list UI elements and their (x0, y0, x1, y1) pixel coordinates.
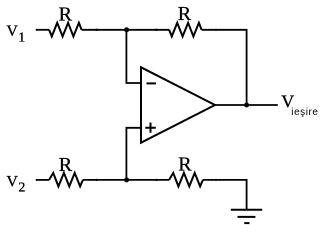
op-amp inverting pin minus sign (147, 82, 157, 84)
junction dot: output node (244, 103, 249, 108)
svg-text:R: R (178, 154, 192, 176)
wire: node down to op-amp inverting input (126, 30, 141, 83)
ground symbol (231, 210, 262, 223)
resistor R (top left, input R from V1) (49, 23, 82, 37)
node Viesire output label (281, 92, 318, 119)
svg-text:R: R (178, 3, 192, 25)
svg-text:R: R (59, 3, 73, 25)
svg-text:V: V (6, 173, 18, 190)
wire endpoint tick (bottom, x96.6) (95, 179, 97, 181)
svg-text:ieşire: ieşire (291, 107, 318, 118)
wire: op-amp output (215, 104, 278, 106)
node V1 label (6, 23, 25, 45)
wire: feedback resistor to output node (202, 30, 247, 105)
junction dot: inverting input node (124, 27, 129, 32)
wire V1 lead (36, 29, 49, 31)
svg-text:V: V (6, 23, 18, 40)
junction dot: non-inverting input node (124, 177, 129, 182)
wire endpoint tick (bottom, x156.5) (155, 179, 157, 181)
op-amp non-inverting pin plus sign (145, 123, 156, 133)
op-amp U1 triangle (141, 67, 215, 142)
wire: resistor to ground (203, 180, 247, 210)
wire endpoint tick (top, x156.4) (155, 29, 157, 31)
resistor R (bottom right, R to ground) (169, 173, 203, 187)
svg-text:1: 1 (18, 30, 25, 45)
resistor R (top right, feedback R) (169, 23, 202, 37)
svg-text:R: R (59, 154, 73, 176)
wire top: resistor to inverting node (82, 29, 170, 31)
wire endpoint tick (bottom, x216) (215, 179, 217, 181)
svg-text:2: 2 (18, 181, 25, 196)
wire endpoint tick (top, x96.5) (95, 29, 97, 31)
wire bottom: resistor to non-inverting node (83, 179, 169, 181)
wire: node up to op-amp non-inverting input (126, 128, 141, 180)
wire endpoint tick (top, x216) (215, 29, 217, 31)
node V2 label (6, 173, 25, 195)
wire V2 lead (36, 179, 49, 181)
resistor R (bottom left, input R from V2) (49, 173, 83, 187)
